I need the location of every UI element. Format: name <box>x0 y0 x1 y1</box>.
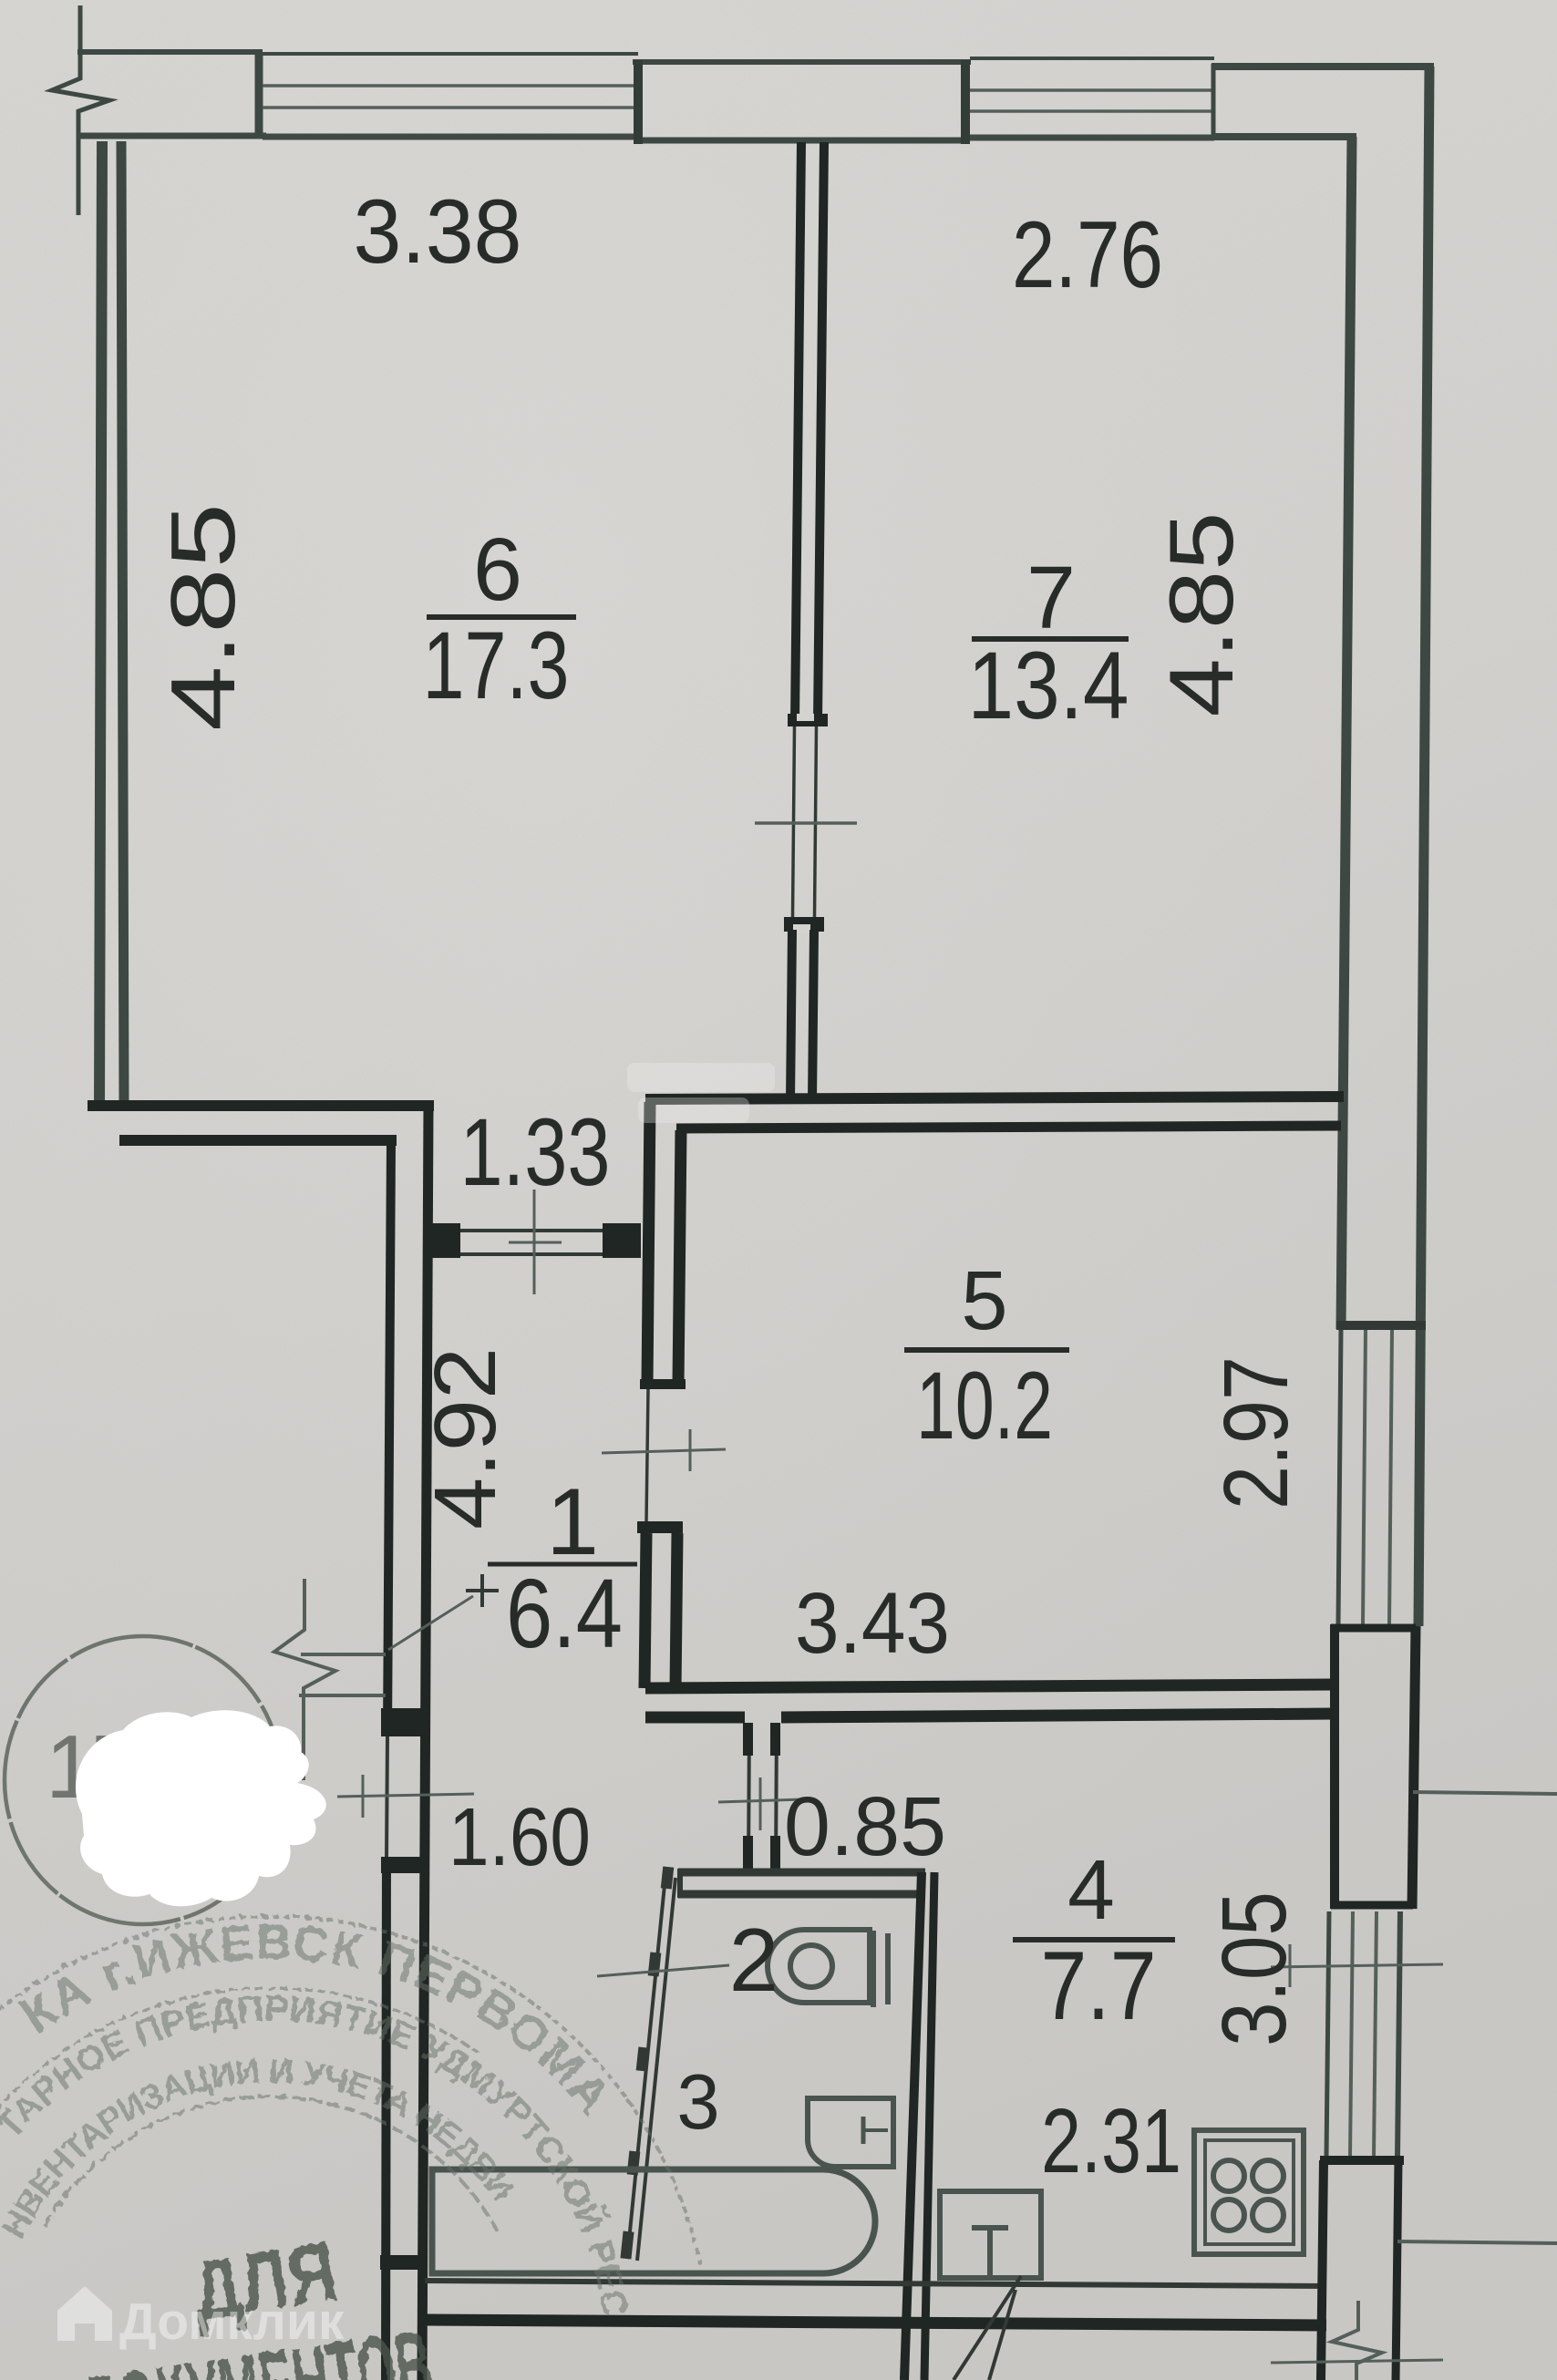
left exterior wall outer line <box>99 141 102 1108</box>
toilet door niche right line <box>776 1723 777 1869</box>
kitchen right window lines <box>1326 1911 1329 2158</box>
white correction blob <box>76 1710 326 1906</box>
entrance door jamb upper <box>381 1708 428 1736</box>
wall room5 bottom second line, gap at toilet door <box>645 1712 745 1724</box>
toilet door jambs <box>743 1723 753 1756</box>
svg-text:7.7: 7.7 <box>1041 1931 1157 2040</box>
dim line 1.60 <box>337 1794 474 1797</box>
dim tick room5 door <box>602 1449 726 1453</box>
wall room6 bottom (bottom line) <box>119 1135 397 1146</box>
left exterior wall inner line <box>121 141 124 1108</box>
wall rooms7+5 top line <box>645 1097 1344 1099</box>
right exterior wall inner line <box>1341 137 1352 1329</box>
dim line bottom right <box>1271 2360 1443 2363</box>
toilet circle <box>790 1945 832 1987</box>
big stamp outer circle <box>0 1916 700 2264</box>
wall room6 bottom (top line) <box>88 1100 434 1111</box>
toilet tank <box>871 1931 876 2007</box>
small stamp circle <box>5 1636 282 1924</box>
room5 door jamb bottom <box>637 1521 683 1533</box>
svg-text:6: 6 <box>473 520 522 619</box>
window of room 7 <box>970 57 1214 60</box>
svg-text:13.4: 13.4 <box>968 633 1129 739</box>
wall between rooms 6 and 7 <box>795 142 801 722</box>
room5 window sill bar <box>1336 1321 1426 1330</box>
right middle pier <box>1330 1624 1339 1909</box>
svg-text:6.4: 6.4 <box>506 1558 623 1668</box>
wall room5 bottom top line <box>645 1685 1335 1688</box>
svg-text:3: 3 <box>676 2059 719 2146</box>
toilet door niche left line <box>748 1723 749 1869</box>
thin line to right edge bottom <box>1397 2241 1557 2243</box>
svg-text:5: 5 <box>961 1254 1007 1347</box>
thin line to right edge at loggia <box>1413 1792 1557 1794</box>
wall break symbol bottom right <box>1332 2301 1382 2380</box>
hall door 1.33: threshold lines <box>460 1229 607 1232</box>
corridor left wall west line <box>387 1140 391 1736</box>
room5 door jamb top <box>640 1379 686 1389</box>
door opening in wall 6/7 <box>793 726 795 917</box>
bathtub <box>432 2169 875 2273</box>
window of room 6 <box>263 52 638 56</box>
toilet top wall <box>678 1869 925 1877</box>
top-left wall pier <box>77 49 263 55</box>
bottom right pier right line <box>1396 2160 1398 2380</box>
room5 left wall upper <box>647 1102 650 1384</box>
svg-text:2.76: 2.76 <box>1012 202 1163 308</box>
room5 right window lines <box>1338 1330 1341 1624</box>
svg-text:2.31: 2.31 <box>1041 2090 1181 2192</box>
dim line for 1.33 <box>533 1190 536 1294</box>
kitchen sink <box>940 2191 1041 2278</box>
bottom right pier left line <box>1321 2160 1324 2380</box>
dim tick bath door <box>597 1965 729 1976</box>
dim line 3.05 cross <box>1271 1964 1443 1967</box>
corridor left wall east line <box>422 1106 428 2380</box>
dim cross 0.85 <box>718 1799 803 1802</box>
svg-text:Домклик: Домклик <box>119 2292 345 2351</box>
dim tick near 6.4 <box>466 1589 499 1592</box>
faint watermark center <box>627 1063 775 1123</box>
stove <box>1194 2130 1304 2254</box>
svg-text:3.05: 3.05 <box>1203 1891 1305 2046</box>
Domclick watermark house icon <box>57 2286 345 2351</box>
wall rooms5 second line <box>676 1126 1341 1128</box>
svg-text:3.43: 3.43 <box>795 1575 950 1672</box>
bath door leaf <box>627 1876 665 2259</box>
svg-text:4.85: 4.85 <box>1150 512 1252 717</box>
top middle pier <box>633 59 971 65</box>
toilet bowl <box>768 1930 870 2003</box>
wall break symbol at entrance <box>274 1579 335 1780</box>
svg-text:10.2: 10.2 <box>916 1353 1053 1459</box>
svg-text:1.60: 1.60 <box>449 1792 591 1883</box>
svg-text:1.33: 1.33 <box>460 1099 611 1206</box>
svg-text:2: 2 <box>729 1910 779 2010</box>
hall door 1.33: left jamb <box>431 1223 460 1258</box>
bath/kitchen bottom wall thick line <box>425 2320 1326 2325</box>
wall break symbol top-left <box>52 5 109 215</box>
toilet/kitchen wall line1 <box>904 1872 922 2380</box>
svg-text:4.85: 4.85 <box>152 503 254 731</box>
entrance door jamb lower <box>381 1857 428 1873</box>
washbasin <box>808 2098 893 2167</box>
room5 door opening edge <box>646 1389 648 1521</box>
corridor wall lower jamb <box>380 2255 428 2270</box>
svg-text:0.85: 0.85 <box>784 1780 946 1873</box>
kitchen window bottom bar <box>1320 2156 1404 2165</box>
big stamp second arc <box>0 1988 481 2172</box>
toilet/kitchen wall line2 <box>924 1872 934 2380</box>
right exterior wall outer line <box>1418 67 1429 1626</box>
kitchen door leaf <box>954 2276 1021 2380</box>
room5 left wall lower <box>644 1533 646 1688</box>
top-right corner wall <box>1212 63 1434 70</box>
bath/kitchen bottom wall thin line <box>425 2281 1326 2286</box>
big stamp inner arc <box>45 2097 499 2234</box>
svg-text:4.92: 4.92 <box>417 1347 514 1530</box>
hall door 1.33: right jamb <box>603 1223 641 1258</box>
svg-text:3.38: 3.38 <box>354 180 522 282</box>
svg-text:4: 4 <box>1067 1842 1115 1937</box>
svg-text:2.97: 2.97 <box>1205 1356 1307 1509</box>
svg-text:17.3: 17.3 <box>423 613 570 719</box>
